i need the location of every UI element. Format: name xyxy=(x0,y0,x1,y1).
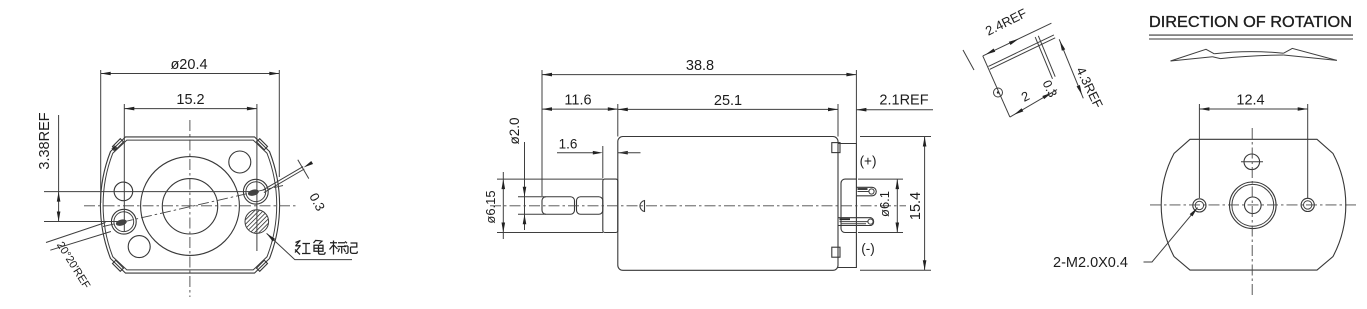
red mark leader xyxy=(267,233,352,259)
dim Ø20.4 arrow left xyxy=(101,72,111,76)
dim 1.6 arrow left xyxy=(593,151,603,155)
tab 0.3 line lower xyxy=(264,169,304,193)
svg-text:15.2: 15.2 xyxy=(176,92,204,108)
dim 11.6 arrow right xyxy=(608,107,618,111)
dim 38.8 line xyxy=(542,74,856,76)
terminal bottom hole xyxy=(868,219,873,224)
screw hole left outer xyxy=(111,209,136,234)
detail hole circle xyxy=(994,88,1003,97)
glyph biao xyxy=(330,241,347,255)
detail hole center dot xyxy=(997,91,999,93)
rear top hole xyxy=(1244,154,1260,170)
dim Ø20.4 line xyxy=(101,73,280,75)
dim 38.8 arrow left xyxy=(542,73,552,77)
detail ext line mid xyxy=(1035,37,1052,79)
dim 15.4 line xyxy=(924,137,926,271)
dim 2 arrow left xyxy=(1013,108,1023,116)
dim 38.8 extension right xyxy=(855,70,857,144)
svg-text:0.3: 0.3 xyxy=(306,190,328,213)
svg-text:ø2.0: ø2.0 xyxy=(507,117,522,144)
dim 2.1REF line xyxy=(856,109,933,111)
dim Ø2.0 arrow bottom xyxy=(523,214,527,224)
dim 38.8 extension left xyxy=(541,70,543,196)
dim Ø2.0 line xyxy=(524,142,526,230)
shaft segment 2 xyxy=(577,197,603,215)
bearing bushing xyxy=(603,179,618,232)
dim 15.4 ext bottom xyxy=(860,269,931,271)
front view inner contour xyxy=(103,140,277,270)
dim Ø6.1 arrow bottom xyxy=(896,223,900,233)
title underline 1 xyxy=(1149,34,1353,36)
angle dim line upper xyxy=(46,223,106,243)
svg-text:2: 2 xyxy=(1019,88,1032,105)
bearing ring circle xyxy=(141,157,240,256)
diagonal centerline through screw holes xyxy=(103,186,283,227)
dim 12.4 extension right xyxy=(1307,104,1309,198)
detail strip line 2 xyxy=(990,38,1055,70)
dim 15.4 arrow top xyxy=(923,137,927,147)
dim 1.6 leader xyxy=(557,152,594,154)
angle dim line lower xyxy=(50,232,111,251)
dim 25.1 extension right xyxy=(837,104,839,137)
dim 2.4REF line xyxy=(983,23,1052,56)
svg-text:25.1: 25.1 xyxy=(714,93,742,109)
dim 12.4 extension left xyxy=(1198,104,1200,198)
dim 4.3REF arrow bottom xyxy=(1077,85,1084,96)
detail ext line mid b xyxy=(1038,36,1055,77)
detail strip line 1 xyxy=(988,35,1054,67)
dim 3.38REF extension top xyxy=(44,191,256,193)
glyph hong xyxy=(295,241,311,255)
dim 4.3REF arrow top xyxy=(1058,40,1065,51)
dim 2 arrow right xyxy=(1042,91,1052,99)
dim 12.4 line xyxy=(1199,108,1307,110)
rear screw hole left outer xyxy=(1193,199,1206,212)
dim 2 line xyxy=(1010,90,1057,118)
horizontal centerline front view xyxy=(84,205,298,207)
terminal top xyxy=(856,187,876,196)
dim 25.1 arrow left xyxy=(618,108,628,112)
svg-text:2.4REF: 2.4REF xyxy=(983,5,1029,38)
terminal top hole xyxy=(869,189,874,194)
rear top hole crosshair xyxy=(1241,161,1263,163)
terminal bottom xyxy=(838,218,873,226)
dim 11.6 line xyxy=(542,108,618,110)
dim Ø6.1 arrow top xyxy=(896,179,900,189)
dim 11.6 arrow left xyxy=(542,107,552,111)
dim 38.8 arrow right xyxy=(846,73,856,77)
detail ext line left xyxy=(983,56,1010,117)
glyph se xyxy=(314,240,326,254)
small hole top-left xyxy=(114,182,133,201)
dim 15.2 arrow left xyxy=(124,107,134,111)
terminal bottom dark edge xyxy=(840,218,851,220)
motor body xyxy=(618,137,838,271)
dim Ø20.4 extension left xyxy=(100,70,102,203)
dim 25.1 arrow right xyxy=(828,108,838,112)
rear view contour xyxy=(1161,139,1346,270)
red mark hatched circle xyxy=(245,210,269,234)
red mark label 红色标记 xyxy=(295,240,357,255)
terminal top slot xyxy=(858,191,870,193)
vent hole bottom-left xyxy=(128,236,150,258)
corner notch top-left end blob xyxy=(111,145,117,151)
boss circle xyxy=(162,179,217,234)
rear boss inner xyxy=(1232,184,1274,226)
tab 0.3 tick xyxy=(298,160,309,179)
dim 15.4 arrow bottom xyxy=(923,260,927,270)
dim Ø6.1 ext top xyxy=(858,178,903,180)
svg-text:2.1REF: 2.1REF xyxy=(879,93,928,109)
svg-text:38.8: 38.8 xyxy=(686,58,714,74)
dim Ø6.15 arrow top xyxy=(502,179,506,189)
dim Ø2.0 arrow top xyxy=(523,187,527,197)
dim 12.4 arrow right xyxy=(1298,107,1308,111)
vent mark on body xyxy=(640,201,645,212)
screw hole right outer xyxy=(243,179,268,204)
screw hole right inner xyxy=(246,182,266,202)
tab 0.3 line upper xyxy=(263,167,303,191)
rear horizontal centerline xyxy=(1150,204,1357,206)
svg-text:11.6: 11.6 xyxy=(564,93,591,109)
dim Ø6.15 ext top xyxy=(497,178,603,180)
svg-text:ø20.4: ø20.4 xyxy=(170,57,207,73)
dim 1.6 arrow right xyxy=(618,151,628,155)
rear boss outer xyxy=(1230,182,1277,229)
dim Ø6.15 line xyxy=(502,172,504,239)
middle centerline xyxy=(490,205,906,207)
title underline 2 xyxy=(1149,38,1353,40)
dim 2.1REF arrow xyxy=(856,108,866,112)
corner notch top-right xyxy=(256,139,267,150)
svg-text:3.38REF: 3.38REF xyxy=(37,112,53,169)
dim 12.4 arrow left xyxy=(1199,107,1209,111)
end cap clip bottom xyxy=(832,247,840,257)
svg-text:DIRECTION OF ROTATION: DIRECTION OF ROTATION xyxy=(1149,14,1352,31)
dim Ø6.15 arrow bottom xyxy=(502,223,506,233)
dim 1.6 ext line a xyxy=(602,146,604,178)
rotation ribbon arrow xyxy=(1171,48,1337,61)
dim Ø6.1 line xyxy=(896,179,898,232)
svg-text:2-M2.0X0.4: 2-M2.0X0.4 xyxy=(1053,255,1128,271)
rear shaft hole xyxy=(1245,197,1262,214)
dim Ø6.15 ext bottom xyxy=(497,232,603,234)
terminal bottom lower band xyxy=(841,223,867,225)
dim 3.38REF line xyxy=(58,115,60,222)
dim Ø2.0 ext bottom xyxy=(518,213,546,215)
svg-text:(-): (-) xyxy=(861,241,875,256)
corner notch bottom-right xyxy=(256,260,267,271)
screw spec leader xyxy=(1144,208,1198,262)
vent hole top-right xyxy=(229,151,251,173)
dim 2.4REF arrow left xyxy=(985,49,996,57)
svg-text:0.3: 0.3 xyxy=(1039,78,1059,100)
dim Ø20.4 arrow right xyxy=(269,72,279,76)
dim 15.2 extension left xyxy=(123,104,125,231)
front view outer contour xyxy=(100,137,279,273)
end cap clip top xyxy=(832,143,840,153)
dim 25.1 extension left xyxy=(617,104,619,137)
dim 15.4 ext top xyxy=(860,136,931,138)
end cap xyxy=(838,144,856,268)
dim Ø2.0 ext top xyxy=(518,196,546,198)
corner notch bottom-left xyxy=(112,260,123,271)
tab 0.3 arrow xyxy=(303,161,313,169)
dim 15.2 line xyxy=(124,108,257,110)
glyph ji xyxy=(344,242,357,254)
brush housing xyxy=(841,179,856,232)
terminal bottom slot xyxy=(840,221,869,223)
dim 4.3REF line xyxy=(1059,39,1083,98)
rear screw hole right outer xyxy=(1301,198,1314,211)
rear screw hole left inner xyxy=(1195,201,1203,209)
svg-text:20°20'REF: 20°20'REF xyxy=(54,240,92,292)
screw hole left inner xyxy=(114,212,134,232)
dim 3.38REF extension bottom xyxy=(44,221,120,223)
svg-text:12.4: 12.4 xyxy=(1236,93,1264,109)
dim 2.4REF arrow right xyxy=(1009,37,1020,45)
svg-text:1.6: 1.6 xyxy=(559,137,578,152)
shaft segment 1 xyxy=(542,197,575,215)
svg-text:ø6.1: ø6.1 xyxy=(877,191,892,217)
screw hole left thread blob xyxy=(115,218,127,227)
dim 15.2 extension right xyxy=(256,104,258,251)
svg-text:ø6.15: ø6.15 xyxy=(483,190,498,223)
screw hole right thread blob xyxy=(247,188,259,197)
rear screw hole right inner xyxy=(1304,201,1312,209)
terminal top dark edge xyxy=(858,188,868,190)
dim 3.38REF arrow top xyxy=(57,192,61,202)
dim 1.6 tail xyxy=(618,152,641,154)
screw spec leader arrow xyxy=(1190,206,1199,216)
vertical centerline front view xyxy=(189,120,191,297)
corner notch top-left xyxy=(112,139,123,150)
detail ext line outer left xyxy=(963,50,974,70)
dim 3.38REF arrow bottom xyxy=(57,212,61,222)
svg-text:(+): (+) xyxy=(860,154,877,169)
svg-text:15.4: 15.4 xyxy=(908,192,924,220)
red mark leader arrow xyxy=(265,232,275,241)
dim 25.1 line xyxy=(618,108,838,110)
dim 15.2 arrow right xyxy=(247,107,257,111)
rear vertical centerline xyxy=(1251,128,1253,298)
dim Ø6.1 ext bottom xyxy=(858,232,903,234)
dim Ø20.4 extension right xyxy=(278,70,280,177)
